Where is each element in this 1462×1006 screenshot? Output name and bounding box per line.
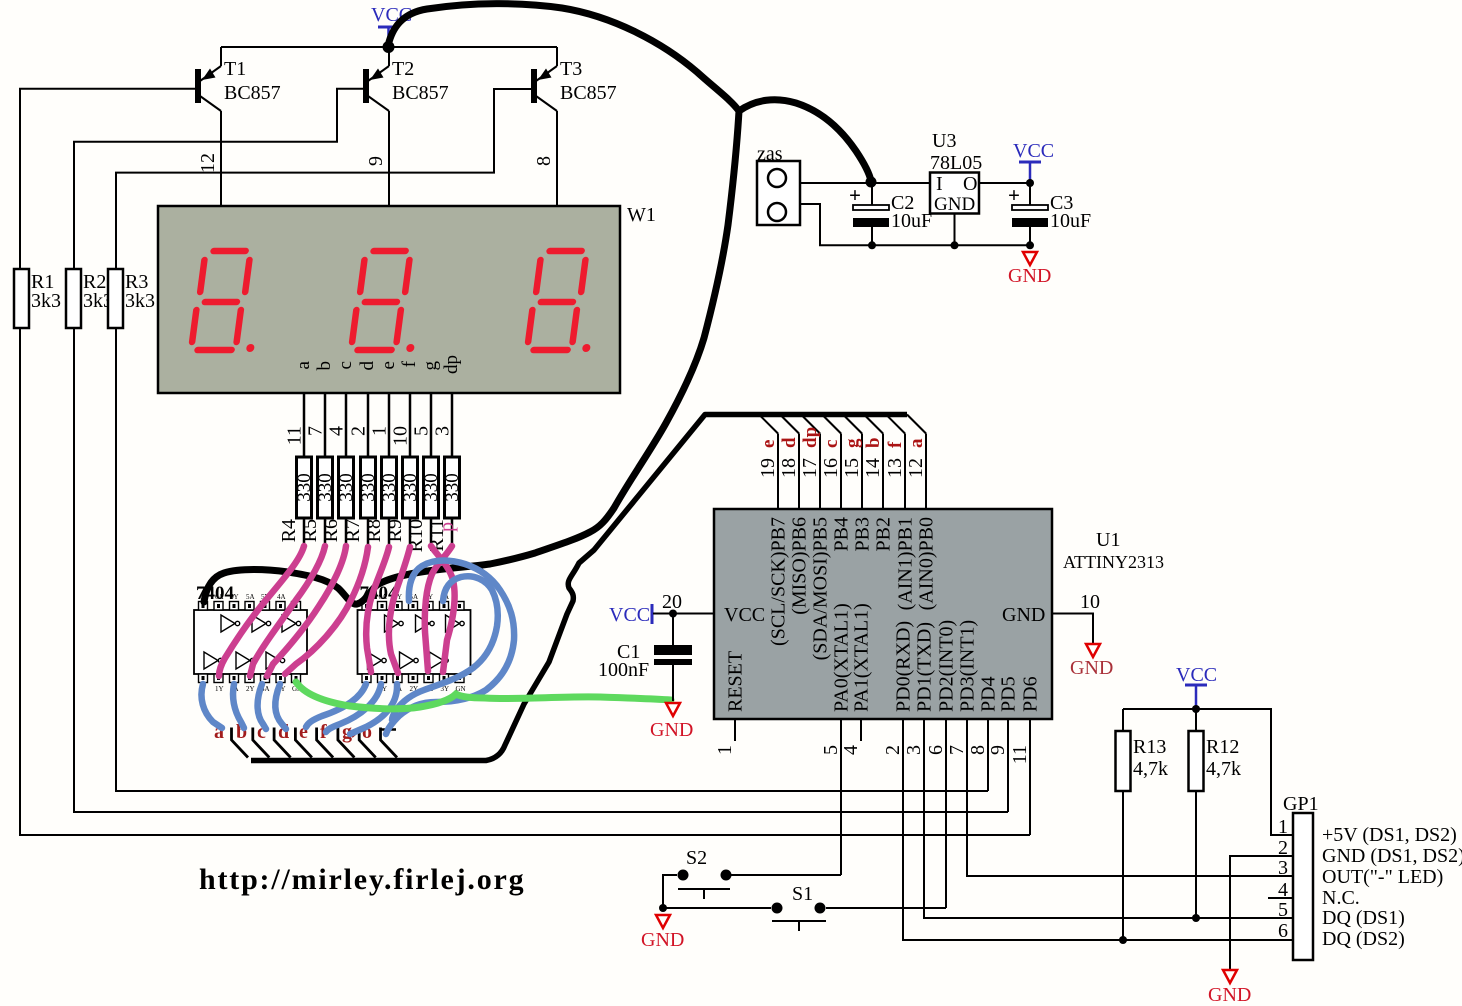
svg-text:PD6: PD6 [1020, 676, 1042, 712]
svg-text:5: 5 [820, 745, 842, 755]
svg-text:14: 14 [862, 458, 884, 478]
svg-text:g: g [420, 361, 441, 371]
svg-text:5: 5 [411, 426, 433, 436]
segment pin labels a-dp [293, 355, 462, 374]
wire VCC rail to GP1 pin1 [1123, 709, 1293, 835]
svg-text:5: 5 [1278, 899, 1288, 921]
svg-text:8: 8 [533, 156, 555, 166]
svg-text:T3: T3 [560, 58, 582, 80]
wire T2 base to R2 column and PD5 line [74, 89, 364, 269]
svg-text:e: e [758, 440, 779, 448]
svg-text:GND: GND [1002, 604, 1045, 626]
svg-text:11: 11 [1009, 745, 1031, 764]
pink jumper R8 to inverter [366, 547, 389, 672]
svg-text:S2: S2 [686, 847, 707, 869]
resistor R12 4,7k [1189, 709, 1242, 922]
svg-text:10: 10 [390, 426, 412, 446]
VCC symbol top [371, 4, 412, 53]
svg-text:c: c [335, 361, 356, 369]
wire zas- to ground rail [800, 204, 1030, 245]
svg-text:(AIN0)PB0: (AIN0)PB0 [916, 517, 938, 610]
svg-text:1: 1 [714, 745, 736, 755]
wire VCC rail [221, 46, 557, 48]
green jumper ground link [296, 682, 671, 709]
transistor T3 BC857 [534, 47, 557, 206]
capacitor C2 10uF [849, 179, 932, 249]
pink jumper R6 to inverter [267, 546, 346, 676]
svg-text:W1: W1 [627, 204, 656, 226]
svg-text:5A: 5A [246, 593, 255, 601]
svg-text:7: 7 [305, 426, 327, 436]
capacitor C3 10uF [1008, 183, 1091, 249]
svg-text:17: 17 [799, 458, 821, 478]
svg-text:7: 7 [946, 745, 968, 755]
svg-text:T2: T2 [392, 58, 414, 80]
inverter IC 7404 left [194, 583, 307, 693]
blue jumper inverter to a [201, 684, 222, 728]
svg-text:VCC: VCC [1013, 140, 1054, 162]
wire T3 base to R3 column and PD4 line [116, 89, 532, 269]
svg-text:http://mirley.firlej.org: http://mirley.firlej.org [199, 863, 525, 896]
svg-text:3k3: 3k3 [125, 290, 155, 312]
svg-text:PD5: PD5 [998, 676, 1020, 712]
svg-text:330: 330 [442, 473, 463, 502]
svg-text:4A: 4A [277, 593, 286, 601]
svg-text:dp: dp [441, 355, 462, 374]
svg-text:R6: R6 [320, 519, 342, 542]
svg-text:I: I [936, 173, 943, 195]
resistor R1 [14, 269, 61, 328]
svg-text:R13: R13 [1133, 736, 1166, 758]
wire GP1 pin4 stub [1268, 897, 1293, 899]
svg-text:PB2: PB2 [873, 517, 895, 551]
ground symbol PSU [1008, 252, 1051, 287]
7-seg digit 3 [527, 251, 603, 352]
inverter IC 7404 right [358, 583, 471, 693]
switch S1 [659, 883, 946, 931]
svg-text:GND: GND [934, 194, 975, 215]
segment letters at port B pins [758, 427, 927, 448]
blue loop jumper outer [386, 561, 514, 735]
svg-text:1Y: 1Y [215, 685, 224, 693]
blue jumper inverter to e [306, 684, 366, 727]
pink jumper R4 to inverter [219, 546, 304, 676]
svg-text:10uF: 10uF [891, 210, 932, 232]
freehand VCC wire to 7404 supply [204, 4, 739, 604]
svg-text:p: p [436, 522, 458, 532]
wires W1 to segment resistors [304, 393, 452, 457]
GP1 pin numbers [1278, 816, 1288, 942]
pink jumper R9 to inverter [389, 547, 410, 673]
svg-text:R12: R12 [1206, 736, 1239, 758]
pink jumper R10 to inverter [431, 546, 455, 672]
switch S2 [663, 847, 841, 908]
pink jumper R5 to inverter [250, 546, 325, 676]
svg-text:78L05: 78L05 [930, 152, 982, 174]
svg-text:c: c [821, 440, 842, 448]
svg-text:OUT("-" LED): OUT("-" LED) [1322, 866, 1443, 888]
svg-text:12: 12 [905, 458, 927, 478]
blue jumper inverter to f [326, 684, 381, 732]
VCC symbol at U3 output [1013, 140, 1054, 187]
svg-text:13: 13 [884, 458, 906, 478]
svg-text:O: O [963, 173, 977, 195]
svg-text:6: 6 [925, 745, 947, 755]
GP1 pin labels [1322, 824, 1462, 950]
svg-text:9: 9 [365, 156, 387, 166]
svg-text:PA0(XTAL1): PA0(XTAL1) [831, 603, 853, 712]
scribble over extra label [352, 725, 366, 737]
svg-text:GND: GND [1070, 657, 1113, 679]
bracket mark [381, 728, 397, 731]
svg-text:4,7k: 4,7k [1206, 758, 1241, 780]
svg-text:R7: R7 [342, 519, 364, 542]
svg-text:VCC: VCC [1176, 664, 1217, 686]
svg-text:+: + [849, 183, 861, 207]
svg-text:1: 1 [369, 426, 391, 436]
svg-text:3: 3 [903, 745, 925, 755]
svg-text:10uF: 10uF [1050, 210, 1091, 232]
blue loop jumper inner [392, 576, 498, 720]
svg-text:19: 19 [757, 458, 779, 478]
svg-text:4: 4 [840, 745, 862, 755]
W1 pin numbers 11 7 4 2 1 10 5 3 [284, 426, 454, 446]
svg-text:R4: R4 [278, 519, 300, 542]
slant leads from labels to bottom bus [232, 728, 398, 758]
7-seg digit 2 [351, 251, 427, 352]
resistor R4 330 [278, 457, 315, 546]
capacitor C1 100nF [598, 614, 692, 702]
svg-text:GND: GND [1208, 984, 1251, 1006]
svg-text:S1: S1 [792, 883, 813, 905]
svg-text:12: 12 [197, 153, 219, 173]
svg-text:(SDA/MOSI)PB5: (SDA/MOSI)PB5 [810, 517, 832, 660]
svg-text:330: 330 [379, 473, 400, 502]
svg-text:e: e [378, 361, 399, 369]
svg-text:18: 18 [778, 458, 800, 478]
resistor R10 330 [405, 457, 442, 552]
svg-text:16: 16 [820, 458, 842, 478]
VCC symbol at pin 20 [609, 591, 714, 626]
resistor R2 [66, 269, 113, 328]
svg-text:3: 3 [1278, 857, 1288, 879]
svg-text:U1: U1 [1096, 529, 1120, 551]
svg-text:VCC: VCC [609, 604, 650, 626]
svg-text:BC857: BC857 [224, 82, 281, 104]
connector zas [757, 143, 800, 225]
svg-text:R5: R5 [299, 519, 321, 542]
svg-text:PD3(INT1): PD3(INT1) [957, 620, 979, 712]
wire zas+ to U3 input [800, 182, 930, 184]
7-seg digit 1 [191, 251, 267, 352]
VCC symbol at pullups [1176, 664, 1217, 713]
svg-text:330: 330 [421, 473, 442, 502]
svg-text:R8: R8 [363, 519, 385, 542]
svg-text:GND (DS1, DS2): GND (DS1, DS2) [1322, 845, 1462, 867]
svg-text:g: g [842, 438, 863, 448]
wire U3 output to VCC node [979, 182, 1030, 184]
svg-text:2: 2 [348, 426, 370, 436]
wire GP1 pin2 to ground [1230, 856, 1293, 969]
resistor R3 [108, 269, 155, 328]
svg-text:BC857: BC857 [392, 82, 449, 104]
resistor R11 330 [426, 457, 463, 552]
svg-text:d: d [779, 437, 800, 448]
bottom pin numbers [714, 745, 1031, 764]
svg-text:330: 330 [400, 473, 421, 502]
resistor R13 4,7k [1116, 709, 1169, 944]
svg-text:6A: 6A [379, 593, 388, 601]
transistor T2 BC857 [366, 47, 389, 206]
svg-text:PD0(RXD): PD0(RXD) [893, 621, 915, 712]
svg-text:f: f [885, 441, 906, 448]
svg-text:GND: GND [641, 929, 684, 951]
ground symbol at GP1 pin2 [1208, 970, 1251, 1006]
connector GP1 [1283, 793, 1319, 960]
svg-text:3: 3 [432, 426, 454, 436]
svg-text:6A: 6A [215, 593, 224, 601]
freehand branch to power input node [739, 100, 871, 181]
svg-text:PD1(TXD): PD1(TXD) [914, 622, 936, 712]
svg-text:b: b [314, 361, 335, 371]
pink jumper R7 to inverter [285, 547, 368, 674]
ground symbol at S2 [641, 915, 684, 951]
pink jumper R11 to inverter [425, 546, 452, 671]
svg-text:PD4: PD4 [978, 676, 1000, 712]
svg-text:11: 11 [284, 426, 306, 445]
svg-text:DQ (DS1): DQ (DS1) [1322, 907, 1405, 929]
blue jumper inverter to c [258, 684, 266, 729]
GND pin 10 lead [1052, 591, 1100, 643]
svg-text:4: 4 [326, 426, 348, 436]
svg-text:ATTINY2313: ATTINY2313 [1063, 552, 1164, 572]
blue jumper inverter to b [233, 684, 244, 728]
svg-text:DQ (DS2): DQ (DS2) [1322, 928, 1405, 950]
svg-text:PD2(INT0): PD2(INT0) [936, 620, 958, 712]
svg-text:d: d [357, 361, 378, 371]
svg-text:330: 330 [336, 473, 357, 502]
transistor T1 BC857 [198, 47, 221, 206]
resistor R9 330 [384, 457, 421, 546]
svg-text:(MISO)PB6: (MISO)PB6 [789, 517, 811, 615]
svg-text:PB3: PB3 [852, 517, 874, 551]
resistor R7 330 [342, 457, 379, 546]
svg-text:6Y: 6Y [230, 593, 239, 601]
svg-text:BC857: BC857 [560, 82, 617, 104]
port B pin names [768, 517, 938, 660]
wire segment bus bottom to ATTINY port bus [251, 415, 907, 761]
svg-text:330: 330 [358, 473, 379, 502]
svg-text:+: + [1008, 183, 1020, 207]
svg-text:330: 330 [315, 473, 336, 502]
svg-text:RESET: RESET [725, 651, 747, 712]
svg-text:a: a [906, 438, 927, 448]
segment bus labels a-g [214, 721, 372, 743]
svg-text:GND: GND [650, 719, 693, 741]
svg-text:100nF: 100nF [598, 659, 649, 681]
svg-text:R9: R9 [384, 519, 406, 542]
port B pin numbers 19-12 [757, 458, 927, 478]
blue jumper inverter to g [350, 684, 397, 734]
port B pin leads to bus [759, 415, 926, 510]
svg-text:b: b [863, 437, 884, 448]
bottom pin stubs and wires [735, 719, 1293, 940]
svg-text:GND: GND [1008, 265, 1051, 287]
svg-text:a: a [293, 360, 314, 369]
voltage regulator U3 78L05 [930, 130, 982, 249]
svg-text:(SCL/SCK)PB7: (SCL/SCK)PB7 [768, 517, 790, 646]
svg-text:U3: U3 [932, 130, 956, 152]
svg-text:N.C.: N.C. [1322, 887, 1360, 909]
svg-text:VCC: VCC [724, 604, 765, 626]
bottom pin names [725, 603, 1042, 712]
svg-text:9: 9 [987, 745, 1009, 755]
resistor R8 330 [363, 457, 400, 546]
svg-text:15: 15 [841, 458, 863, 478]
ground symbol at pin 10 [1070, 644, 1113, 679]
svg-text:f: f [399, 360, 420, 367]
svg-text:330: 330 [294, 473, 315, 502]
svg-text:8: 8 [967, 745, 989, 755]
svg-text:2Y: 2Y [246, 685, 255, 693]
svg-text:dp: dp [800, 427, 821, 448]
svg-text:(AIN1)PB1: (AIN1)PB1 [895, 517, 917, 610]
microcontroller U1 ATTINY2313 [714, 509, 1164, 719]
wire T1 base to R1 column and PD6 line [20, 89, 196, 269]
svg-text:+5V (DS1, DS2): +5V (DS1, DS2) [1322, 824, 1457, 846]
resistor R5 330 [299, 457, 336, 546]
svg-text:4,7k: 4,7k [1133, 758, 1168, 780]
display W1 (3-digit 7-segment) [158, 204, 656, 393]
resistor R6 330 [320, 457, 357, 546]
svg-text:PA1(XTAL1): PA1(XTAL1) [851, 603, 873, 712]
svg-text:6: 6 [1278, 920, 1288, 942]
svg-text:2: 2 [882, 745, 904, 755]
svg-text:GP1: GP1 [1283, 793, 1319, 815]
blue jumper inverter to d [275, 684, 286, 729]
svg-text:T1: T1 [224, 58, 246, 80]
svg-text:PB4: PB4 [831, 517, 853, 551]
svg-text:10: 10 [1080, 591, 1100, 613]
ground symbol at C1 [650, 703, 693, 741]
svg-text:1: 1 [1278, 816, 1288, 838]
svg-text:3k3: 3k3 [31, 290, 61, 312]
